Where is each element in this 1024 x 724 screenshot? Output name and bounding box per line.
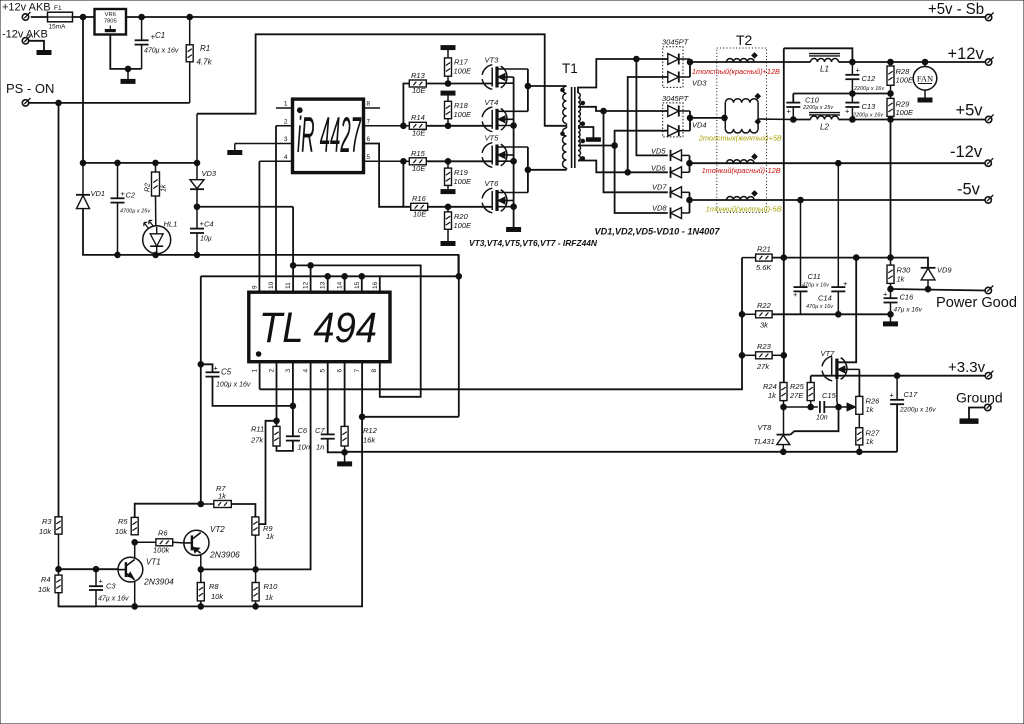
IC U2 IR4427 — [293, 99, 364, 173]
wire base line VT1 — [59, 568, 119, 570]
wire pins13-15 reference rail — [201, 275, 380, 277]
wire VT3/VT4 drains — [527, 69, 529, 111]
capacitor C16 — [890, 289, 892, 298]
pin 13 TL494 — [327, 276, 329, 292]
svg-text:C17: C17 — [904, 390, 919, 399]
capacitor C10 — [792, 94, 794, 103]
svg-text:1k: 1k — [866, 405, 875, 414]
terminal -12v — [985, 160, 991, 166]
pin 1 IR4427 — [276, 107, 293, 109]
ground source bus — [507, 228, 521, 232]
svg-text:+5v - Sb: +5v - Sb — [928, 1, 984, 18]
svg-text:L1: L1 — [820, 65, 829, 74]
node R14 input — [401, 123, 407, 129]
node tap3 — [612, 143, 618, 149]
capacitor C15 — [819, 401, 821, 413]
wire IR pin2 to TL494 pin10 — [275, 126, 277, 292]
svg-text:VT8: VT8 — [758, 423, 773, 432]
wire IR pin4 to TL494 pin9 — [258, 161, 260, 292]
svg-text:2N3906: 2N3906 — [209, 550, 240, 560]
transformer T2 outline — [717, 48, 767, 212]
svg-text:1k: 1k — [897, 275, 906, 284]
svg-text:VD4: VD4 — [692, 121, 707, 130]
node bottom tap / VD3b tie — [625, 170, 631, 176]
node HL1 bottom — [153, 252, 159, 258]
wire tap2 to VD4a — [604, 110, 668, 112]
resistor R21 — [756, 254, 773, 261]
svg-text:R17: R17 — [454, 58, 469, 67]
wire R24/R25/C15 row — [784, 406, 818, 408]
node C12 top — [850, 59, 856, 65]
ground -12v AKB — [37, 51, 51, 55]
node VD3 cathode on rail — [194, 160, 200, 166]
wire +12 column junction R21 — [781, 255, 787, 261]
terminal +5v - Sb — [985, 14, 991, 20]
node R23 left — [739, 353, 745, 359]
node -5 rectified — [687, 197, 693, 203]
shunt regulator VT8 TL431 — [783, 407, 785, 434]
diode VD4a — [668, 106, 679, 117]
wire VD5/VD6 cathodes — [689, 155, 691, 172]
svg-text:TL431: TL431 — [754, 437, 775, 446]
node VT2 emitter — [198, 567, 204, 573]
svg-text:R23: R23 — [757, 342, 772, 351]
node R12/C7 ground — [342, 450, 348, 456]
svg-text:T2: T2 — [736, 32, 753, 48]
resistor R13 — [409, 80, 426, 87]
svg-text:100E: 100E — [454, 67, 473, 76]
wire tap2 to VD7 — [604, 111, 668, 192]
node R18/R14 — [445, 123, 451, 129]
capacitor C4 — [196, 207, 198, 229]
resistor R12 — [341, 426, 348, 446]
svg-text:R21: R21 — [757, 245, 771, 254]
wire R13/R14 tie — [403, 84, 409, 126]
svg-text:47µ x 16v: 47µ x 16v — [98, 596, 129, 603]
transformer T1 core — [571, 87, 573, 168]
node R15 input — [401, 159, 407, 165]
svg-text:1: 1 — [252, 369, 259, 373]
ground VR6 output — [125, 66, 131, 72]
svg-text:F1: F1 — [54, 5, 62, 12]
node C5 top — [198, 362, 204, 368]
capacitor C11 — [800, 200, 802, 287]
svg-text:10k: 10k — [211, 592, 224, 601]
transistor VT1 2N3904 — [118, 557, 143, 582]
wire R13 to VT3 gate — [426, 83, 492, 85]
node tap2 — [601, 108, 607, 114]
svg-text:-5v: -5v — [957, 181, 981, 199]
pin 3 IR4427 — [235, 143, 293, 145]
wire secondary bottom tap — [578, 161, 668, 173]
terminal Power Good — [985, 287, 991, 293]
svg-text:VT6: VT6 — [485, 179, 500, 188]
capacitor C6 — [286, 435, 300, 437]
svg-text:15: 15 — [354, 281, 361, 289]
node C15 right / VT7 source — [836, 404, 842, 410]
svg-text:4700µ x 25v: 4700µ x 25v — [120, 209, 151, 215]
terminal -12v AKB — [22, 38, 28, 44]
svg-text:C10: C10 — [805, 96, 820, 105]
resistor R2 — [153, 160, 159, 166]
svg-text:+: + — [883, 290, 888, 299]
svg-text:VT1: VT1 — [146, 558, 161, 567]
wire R22 right to ground cap — [772, 313, 890, 315]
resistor R19 — [445, 159, 451, 165]
svg-text:1тонкий(желтый)-5В: 1тонкий(желтый)-5В — [706, 205, 782, 214]
svg-text:R20: R20 — [454, 212, 469, 221]
svg-text:C6: C6 — [298, 426, 308, 435]
svg-text:C13: C13 — [862, 102, 877, 111]
svg-text:1: 1 — [284, 101, 288, 108]
wire VD1 branch from node A — [82, 17, 84, 163]
svg-text:+: + — [99, 577, 104, 586]
ground C16 — [890, 314, 892, 322]
svg-text:VD3: VD3 — [202, 169, 217, 178]
node R5/R6/VT1 collector — [132, 540, 138, 546]
node C11 top — [798, 197, 804, 203]
node R30 bottom — [888, 286, 894, 292]
node R8 bottom — [198, 604, 204, 610]
svg-text:10E: 10E — [413, 210, 427, 219]
svg-text:VD1: VD1 — [91, 189, 106, 198]
inductor L1 — [809, 54, 840, 62]
svg-text:VD3: VD3 — [692, 79, 707, 88]
svg-text:+: + — [793, 290, 798, 299]
wire R21 row to VD9 — [772, 258, 928, 268]
terminal Ground — [985, 404, 991, 410]
svg-text:2200µ x 16v: 2200µ x 16v — [899, 407, 936, 414]
rectifier box 3045PT lower — [663, 103, 683, 137]
ground fan — [918, 98, 932, 102]
node C13 top — [850, 91, 856, 97]
wire +3.3v rail — [811, 375, 986, 377]
svg-text:C14: C14 — [818, 294, 832, 303]
node VD9 bottom — [925, 286, 931, 292]
svg-text:7: 7 — [367, 118, 371, 125]
svg-text:PS - ON: PS - ON — [6, 81, 54, 96]
node VT1 emitter rail — [132, 604, 138, 610]
svg-text:2200µ x 16v: 2200µ x 16v — [853, 86, 885, 92]
transistor VT6 — [482, 188, 528, 213]
svg-text:1k: 1k — [265, 593, 274, 602]
resistor R8 — [200, 569, 202, 582]
wire +12v line — [690, 61, 811, 63]
svg-text:10n: 10n — [816, 415, 828, 422]
svg-text:1тонкий(красный)-12В: 1тонкий(красный)-12В — [702, 166, 781, 175]
wire VT1 collector — [134, 542, 136, 558]
pin 4 IR4427 — [259, 160, 292, 162]
svg-text:R11: R11 — [251, 425, 264, 434]
node R17/R13 — [445, 81, 451, 87]
svg-text:27E: 27E — [789, 391, 804, 400]
node VD3a/VD5 tap — [634, 56, 640, 62]
svg-text:47µ x 16v: 47µ x 16v — [894, 307, 923, 314]
svg-text:+5v: +5v — [956, 102, 984, 120]
wire +5v rail to terminal — [839, 119, 986, 121]
svg-text:R19: R19 — [454, 168, 469, 177]
svg-text:R8: R8 — [209, 582, 219, 591]
node C16 bottom — [888, 312, 894, 318]
resistor R10 — [255, 569, 257, 582]
svg-text:C5: C5 — [221, 368, 232, 377]
pin 15 TL494 — [361, 276, 363, 292]
node C3 top — [93, 566, 99, 572]
diode VD1 — [82, 163, 84, 195]
svg-text:VT4: VT4 — [485, 98, 499, 107]
pin 6 IR4427 — [364, 144, 404, 207]
svg-text:10n: 10n — [298, 443, 311, 452]
capacitor C3 — [95, 569, 97, 586]
svg-text:3045PT: 3045PT — [662, 38, 690, 47]
svg-text:C12: C12 — [862, 74, 877, 83]
svg-text:8: 8 — [371, 369, 378, 373]
wire tap to VD5 — [636, 59, 667, 155]
diode VD3 — [196, 114, 198, 180]
svg-text:2: 2 — [269, 369, 276, 373]
pin 3 TL494 — [292, 362, 294, 437]
ground R12 — [344, 452, 346, 462]
wire R16 to VT6 gate — [428, 206, 493, 208]
node VT7 drain feed — [853, 255, 859, 261]
node -12 rectified — [687, 160, 693, 166]
wire left column down to R3 — [58, 103, 60, 517]
svg-text:2N3904: 2N3904 — [143, 577, 174, 587]
transistor VT7 mosfet — [822, 356, 847, 381]
svg-text:10µ: 10µ — [200, 236, 212, 243]
node R23/+12 column — [781, 353, 787, 359]
wire ground net vertical — [458, 255, 460, 417]
svg-text:2: 2 — [284, 118, 288, 125]
wire VD7/VD8 cathodes — [689, 192, 691, 213]
svg-text:R25: R25 — [790, 382, 805, 391]
wire TL494 pin2 branch to R9 top — [259, 421, 277, 524]
transformer T1 secondary — [578, 93, 580, 107]
svg-text:HL1: HL1 — [164, 220, 178, 229]
svg-text:R13: R13 — [411, 71, 426, 80]
svg-text:+12v AKB: +12v AKB — [2, 2, 51, 14]
node C10 bottom — [791, 117, 797, 123]
inductor T2 winding1 — [727, 59, 755, 62]
svg-text:1k: 1k — [866, 437, 875, 446]
svg-text:+: + — [843, 279, 848, 288]
resistor R4 — [58, 569, 60, 575]
resistor R23 — [742, 354, 756, 356]
svg-text:100E: 100E — [454, 177, 473, 186]
wire emitter row to TL494 pin4 — [201, 362, 311, 570]
wire VD3 feed loop to T1 center tap — [197, 34, 567, 126]
svg-text:VD8: VD8 — [652, 204, 667, 213]
wire left reference rail — [200, 276, 202, 503]
node drain pair top — [525, 83, 531, 89]
node R30 top — [888, 255, 894, 261]
resistor R16 — [411, 203, 428, 210]
wire R7 to R9 — [231, 504, 255, 517]
wire secondary center tap to ground — [578, 127, 593, 138]
wire VD3 anode to TL494 pin11 — [197, 206, 293, 208]
pin 16 TL494 — [380, 276, 459, 292]
svg-text:R10: R10 — [264, 582, 279, 591]
wire source bus — [513, 77, 515, 228]
svg-text:1k: 1k — [218, 492, 227, 501]
wire R14 to VT4 gate — [426, 125, 492, 127]
resistor R28 — [888, 59, 894, 65]
svg-text:1k: 1k — [161, 184, 168, 192]
inductor L2 — [809, 113, 840, 120]
svg-text:8: 8 — [367, 101, 371, 108]
wire R4 to bottom rail — [59, 593, 97, 607]
svg-text:100E: 100E — [454, 221, 473, 230]
svg-text:10k: 10k — [115, 527, 128, 536]
svg-text:R4: R4 — [41, 575, 51, 584]
node +5 rectified — [687, 115, 693, 121]
terminal +3.3v — [985, 373, 991, 379]
resistor R20 — [445, 204, 451, 210]
svg-text:VD6: VD6 — [651, 164, 666, 173]
node R10 top — [253, 567, 259, 573]
svg-text:+3.3v: +3.3v — [948, 359, 986, 376]
terminal +12v — [985, 59, 991, 65]
svg-text:Ground: Ground — [956, 390, 1003, 406]
pin 14 TL494 — [344, 276, 346, 292]
svg-text:FAN: FAN — [917, 74, 933, 84]
svg-text:13: 13 — [320, 281, 327, 289]
node A junction F1/VD1 branch — [80, 14, 86, 20]
node pin3/C5 — [290, 403, 296, 409]
svg-text:R2: R2 — [145, 183, 152, 192]
wire VR6 ground pin — [110, 35, 141, 69]
wire VT7 source down — [836, 379, 838, 402]
pin 2 IR4427 — [276, 125, 293, 127]
svg-text:2200µ x 16v: 2200µ x 16v — [852, 113, 884, 119]
svg-text:R14: R14 — [411, 113, 425, 122]
LED HL1 — [155, 196, 157, 226]
node R29 bottom — [888, 117, 894, 123]
wire R11 bottom to C6 — [277, 441, 293, 451]
node ground net corner — [456, 274, 462, 280]
svg-text:100µ x 16v: 100µ x 16v — [216, 382, 251, 389]
svg-text:470µ x 16v: 470µ x 16v — [144, 48, 179, 55]
svg-text:C1: C1 — [155, 31, 165, 40]
node R10 bottom — [253, 604, 259, 610]
capacitor C5 — [201, 364, 213, 372]
fan — [922, 59, 928, 65]
svg-text:3045PT: 3045PT — [662, 94, 690, 103]
terminal +5v — [985, 116, 991, 122]
wire TL431 ref — [791, 407, 839, 435]
pin 12 TL494 — [310, 265, 312, 292]
pin 5 IR4427 — [364, 160, 404, 162]
node pin7 junction — [359, 414, 365, 420]
pin 5 TL494 — [327, 362, 329, 435]
svg-text:11: 11 — [285, 282, 292, 289]
svg-text:+: + — [890, 391, 895, 400]
node R22 left — [739, 312, 745, 318]
resistor R26 — [856, 396, 863, 414]
pin 11 TL494 — [292, 207, 294, 292]
svg-text:VD1,VD2,VD5-VD10 - 1N4007: VD1,VD2,VD5-VD10 - 1N4007 — [595, 227, 721, 238]
capacitor C14 — [837, 163, 839, 287]
capacitor C7 — [321, 433, 335, 435]
wire fuse to VR6 — [73, 16, 95, 18]
wire R15/R16 tie — [403, 161, 410, 207]
svg-text:2толстых(желтых)+5В: 2толстых(желтых)+5В — [698, 134, 782, 143]
svg-text:C11: C11 — [808, 272, 821, 281]
svg-text:+: + — [214, 364, 219, 373]
svg-text:16: 16 — [372, 281, 379, 289]
svg-text:4: 4 — [303, 369, 310, 373]
node PS-ON junction — [56, 100, 62, 106]
node R25 bottom — [808, 404, 814, 410]
resistor R11 — [273, 426, 280, 446]
wire VT7 drain — [837, 258, 856, 363]
svg-text:5.6K: 5.6K — [756, 263, 772, 272]
wire secondary top tap to rectifier VD3a — [578, 59, 668, 93]
svg-text:R1: R1 — [200, 44, 210, 53]
node VD1 top rail — [80, 160, 86, 166]
svg-text:470µ x 16v: 470µ x 16v — [806, 304, 834, 310]
node drain pair bottom — [525, 167, 531, 173]
svg-text:7: 7 — [354, 369, 361, 373]
wire +5v standby rail to +5v-Sb terminal — [126, 16, 985, 18]
ground output ground — [960, 419, 978, 424]
svg-text:+12v: +12v — [948, 45, 985, 63]
svg-text:+: + — [787, 107, 792, 116]
pin 8 IR4427 — [364, 107, 381, 109]
svg-text:15mA: 15mA — [49, 24, 67, 31]
svg-text:R30: R30 — [897, 266, 912, 275]
regulator VR6 7805 — [95, 9, 127, 35]
wire bottom ground rail — [59, 362, 363, 607]
svg-text:Power Good: Power Good — [936, 295, 1017, 311]
svg-text:T1: T1 — [562, 61, 578, 76]
node C14 bottom — [836, 312, 842, 318]
svg-text:C4: C4 — [204, 220, 214, 229]
svg-text:VD9: VD9 — [937, 266, 952, 275]
node +12 rectified — [687, 59, 693, 65]
terminal PS-ON — [22, 100, 28, 106]
IC U1 TL494 — [249, 292, 390, 362]
node C14 top — [836, 160, 842, 166]
resistor R29 — [890, 94, 892, 99]
resistor R25 — [810, 376, 812, 383]
svg-text:VT7: VT7 — [821, 349, 836, 358]
svg-text:-12v AKB: -12v AKB — [2, 29, 48, 41]
svg-text:+: + — [856, 66, 861, 75]
wire power good line — [891, 289, 986, 291]
ground R17 top — [441, 46, 455, 50]
transistor VT2 2N3906 — [184, 530, 209, 555]
svg-text:L2: L2 — [820, 123, 829, 132]
inductor T2 winding2 pair — [725, 99, 758, 133]
wire VT1 emitter to rail — [134, 581, 136, 606]
svg-text:470µ x 16v: 470µ x 16v — [802, 283, 830, 289]
svg-text:R12: R12 — [363, 426, 378, 435]
svg-text:9: 9 — [252, 285, 259, 289]
wire +5v feed — [690, 117, 725, 119]
resistor R18 — [445, 101, 452, 118]
wire pin1 TL494 — [259, 362, 261, 390]
svg-text:100E: 100E — [896, 108, 915, 117]
svg-text:100E: 100E — [454, 110, 473, 119]
node R3/R4 divider — [56, 566, 62, 572]
svg-text:VR6: VR6 — [105, 12, 116, 18]
wire R9 bottom — [254, 535, 256, 569]
svg-text:C15: C15 — [822, 391, 837, 400]
svg-text:C2: C2 — [126, 191, 136, 200]
fuse F1 — [48, 12, 73, 22]
svg-text:27k: 27k — [756, 362, 770, 371]
